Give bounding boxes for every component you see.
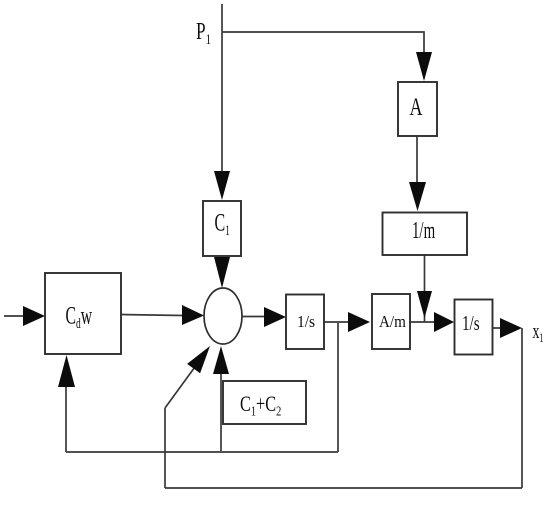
wire feedback2 from output down [521, 328, 523, 488]
wire A to 1/m [416, 136, 418, 184]
wire feedback2 diagonal to summer [165, 360, 200, 408]
arrowhead down into A [416, 52, 432, 81]
arrowhead up into summer bottom [213, 346, 229, 374]
wire feedback2 up [164, 408, 166, 488]
arrowhead right into 1/s [264, 307, 286, 327]
wire P1 branch horizontal to A [222, 32, 424, 54]
block A/m [372, 294, 410, 349]
block 1/s second [455, 300, 493, 355]
wire Cdw to summer [121, 315, 183, 316]
svg-text:1/s: 1/s [462, 312, 480, 335]
arrowhead down from 1/m at junction [417, 291, 432, 318]
wire A/m to junction to 1/s [410, 321, 436, 323]
arrowhead down into C1 [214, 171, 230, 200]
arrowhead up into Cdw bottom [58, 355, 75, 387]
arrowhead right into Cdw [23, 306, 45, 326]
arrowhead right into summer [182, 305, 204, 325]
wire feedback tap after 1/s down [337, 323, 339, 452]
block C1 [203, 201, 241, 256]
arrowhead down into 1/m [409, 182, 426, 211]
block C1+C2 [223, 381, 306, 424]
block A [398, 82, 437, 136]
wire C1+C2 up to summer [220, 372, 222, 451]
arrowhead right output x1 [500, 318, 522, 338]
svg-text:1/m: 1/m [412, 218, 435, 244]
wire feedback1 up to Cdw [65, 385, 67, 452]
wire 1/m down to junction [424, 255, 426, 322]
wire 1/s to A/m [323, 321, 349, 323]
block Cdw [45, 273, 121, 354]
block 1/m [383, 213, 468, 256]
wire feedback2 horizontal [165, 487, 522, 489]
svg-text:P1: P1 [196, 17, 211, 47]
wire P1 vertical drop [221, 4, 223, 176]
arrowhead right into second 1/s [434, 312, 454, 332]
svg-text:A: A [410, 93, 423, 121]
wire input to Cdw [4, 315, 25, 317]
summing junction [204, 288, 242, 344]
wire 1/s output [493, 327, 502, 329]
arrowhead down from C1 into summer [214, 257, 230, 288]
svg-text:C1+C2: C1+C2 [240, 393, 281, 419]
arrowhead diagonal into summer [187, 346, 210, 373]
wire summer to 1/s [241, 316, 265, 318]
svg-text:1/s: 1/s [297, 312, 315, 331]
svg-text:A/m: A/m [379, 313, 406, 331]
block 1/s first [286, 295, 324, 350]
svg-text:x1: x1 [533, 319, 544, 346]
wire feedback1 horizontal [66, 451, 338, 453]
arrowhead right into A/m [348, 312, 370, 332]
